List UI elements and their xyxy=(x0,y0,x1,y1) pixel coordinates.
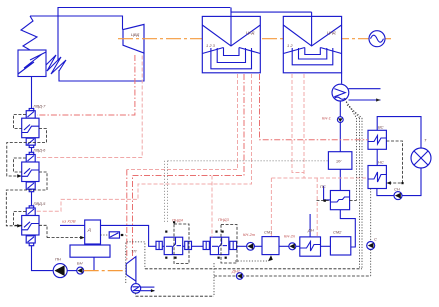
mixer SM2 box xyxy=(330,237,350,255)
svg-text:НС: НС xyxy=(378,160,384,165)
wire xyxy=(296,245,300,247)
svg-text:ДН1: ДН1 xyxy=(231,269,240,274)
wire pump suction xyxy=(67,270,77,272)
reheater zigzag xyxy=(46,55,66,74)
heater PND-1 group xyxy=(300,237,321,256)
PND-3 drain dashed box xyxy=(221,225,237,264)
turbine LPT (CND) box xyxy=(283,16,341,72)
svg-text:ЭУ: ЭУ xyxy=(336,159,342,164)
condenser air drains dotted xyxy=(345,99,357,118)
svg-text:ПВД-6: ПВД-6 xyxy=(34,148,47,153)
pump KN-1 xyxy=(337,117,343,123)
wire feedwater main riser xyxy=(31,77,33,109)
wire condenser to pump KN1 xyxy=(339,101,341,117)
PND-4 drain dashed box xyxy=(174,224,189,264)
wire network water loop xyxy=(376,149,378,165)
svg-text:1 2 3: 1 2 3 xyxy=(206,43,216,48)
condenser cooling water wires xyxy=(349,88,381,90)
S pump drain dotted xyxy=(370,189,372,242)
wire cold reheat line xyxy=(59,53,144,81)
network heater VS upper xyxy=(368,130,386,149)
heater PVD-3 group xyxy=(22,206,39,246)
svg-text:БН: БН xyxy=(77,261,83,266)
pump SN xyxy=(394,192,402,200)
wire hot reheat line xyxy=(58,8,230,61)
mixer SM1 box xyxy=(262,237,279,255)
wire xyxy=(279,245,289,247)
IPT inlet wire xyxy=(230,8,232,47)
drive condenser xyxy=(131,284,141,294)
turbine HPT (CVD) xyxy=(123,24,144,53)
wire pump to ejector cooler xyxy=(339,123,341,152)
extraction LPT-1 red xyxy=(292,74,304,173)
svg-text:ДН: ДН xyxy=(307,228,314,233)
svg-text:ПВД-7: ПВД-7 xyxy=(34,104,47,109)
LPT flow slants xyxy=(283,25,341,46)
PS drain dashed stubs xyxy=(317,200,331,202)
wire makeup stub to deaerator xyxy=(60,224,85,226)
svg-text:ЦНД: ЦНД xyxy=(327,30,336,35)
pump KN-3 xyxy=(289,243,296,250)
deaerator tank xyxy=(70,245,110,257)
feed pump PN xyxy=(53,264,67,278)
heater PND-3 group xyxy=(203,237,237,254)
booster pump BN xyxy=(77,267,84,274)
PVD drain cascade dashed lines xyxy=(6,115,84,240)
drive turbine dotted enclosure xyxy=(126,242,145,283)
deaerator column D xyxy=(85,220,101,244)
svg-text:ЦСД: ЦСД xyxy=(246,30,255,35)
svg-text:СМ1: СМ1 xyxy=(264,230,272,235)
pump KN-2 xyxy=(247,242,255,250)
svg-text:ЦВД: ЦВД xyxy=(131,32,139,37)
wire LPT to condenser xyxy=(341,73,343,84)
bottom dotted drain manifolds xyxy=(145,268,362,270)
wire return xyxy=(402,168,421,196)
wire xyxy=(321,245,331,247)
drain line into SM1 xyxy=(235,260,269,262)
boiler evaporator zigzag xyxy=(18,52,46,74)
wire tank downcomer xyxy=(93,257,95,270)
network heater NS lower xyxy=(368,166,386,189)
svg-text:СН: СН xyxy=(394,187,400,192)
LPT inlet wire xyxy=(311,12,313,46)
extraction IPT-4 to VS red xyxy=(260,74,369,140)
wire PND-1 steam stub xyxy=(309,214,311,237)
heater PND-4 group xyxy=(156,237,192,254)
PS steam inlet stub xyxy=(324,186,331,200)
ejector drain dotted gray xyxy=(168,160,329,162)
IPT extraction channels nested U xyxy=(211,48,252,69)
IPT flow slants xyxy=(202,25,260,46)
svg-text:КН-1: КН-1 xyxy=(322,116,331,121)
heater PVD-2 group xyxy=(22,152,39,191)
condenser K xyxy=(332,84,349,101)
svg-text:ПВД-5: ПВД-5 xyxy=(34,201,47,206)
wire EU to PS xyxy=(339,169,341,190)
heater PVD-1 group xyxy=(22,109,39,148)
shaft line orange xyxy=(118,38,369,40)
svg-text:1 2: 1 2 xyxy=(287,43,293,48)
svg-text:ПН: ПН xyxy=(55,257,61,262)
VS-NS drain cascade dashed xyxy=(386,141,402,183)
turbine IPT (CSD) box xyxy=(202,16,260,72)
extraction IPT-2 to drive turbine red xyxy=(133,74,245,259)
wire xyxy=(237,245,247,247)
drain pump DN1 xyxy=(236,273,243,280)
svg-text:КН-2п: КН-2п xyxy=(284,234,296,239)
generator G xyxy=(369,31,385,47)
wire main steam line xyxy=(30,16,123,30)
svg-text:КН-2т: КН-2т xyxy=(243,232,256,237)
svg-text:СМ2: СМ2 xyxy=(333,230,342,235)
extraction 2 HPT to PVD-2 red xyxy=(37,56,142,158)
shaft feedpump turbine orange xyxy=(84,270,127,272)
svg-text:из ХОВ: из ХОВ xyxy=(62,219,76,224)
branch to PND-1 red xyxy=(316,178,318,237)
branch to PND-3 red xyxy=(211,176,213,238)
ROU valve symbol xyxy=(109,232,119,238)
wire IP-LP crossover xyxy=(231,8,312,13)
wire drive exhaust xyxy=(135,281,137,284)
extraction IPT-1 to drive turbine red xyxy=(127,74,238,170)
shaft line orange right of generator xyxy=(385,38,391,40)
svg-text:ТП: ТП xyxy=(131,249,136,254)
heat consumer T xyxy=(411,148,431,168)
wire xyxy=(377,189,394,196)
extraction LPT-2 long red manifold xyxy=(304,74,368,178)
gland steam condenser PS xyxy=(330,191,349,210)
wire PS outlet to SM2 xyxy=(340,210,355,247)
LPT extraction channels nested U xyxy=(292,48,333,65)
svg-text:ВС: ВС xyxy=(378,125,384,130)
branch to SM1 red xyxy=(270,178,272,237)
svg-text:ПНД4: ПНД4 xyxy=(172,218,184,223)
superheater zigzag xyxy=(21,16,37,50)
wire xyxy=(254,245,262,247)
ejector unit EU box xyxy=(328,152,352,170)
wire xyxy=(162,245,164,247)
svg-text:ПС: ПС xyxy=(320,184,326,189)
junction dots xyxy=(165,257,167,259)
drain pump S xyxy=(367,242,375,250)
svg-text:С: С xyxy=(374,237,377,242)
svg-text:ПНД3: ПНД3 xyxy=(218,217,230,222)
boiler B1 body xyxy=(18,50,46,77)
wire main condensate to deaerator xyxy=(101,225,157,246)
svg-text:Д: Д xyxy=(87,227,91,232)
turbine drive TP xyxy=(126,257,136,282)
extraction IPT-3 to PVD-3 red xyxy=(34,74,252,211)
extraction 1 HPT to PVD-1 red xyxy=(37,55,135,115)
